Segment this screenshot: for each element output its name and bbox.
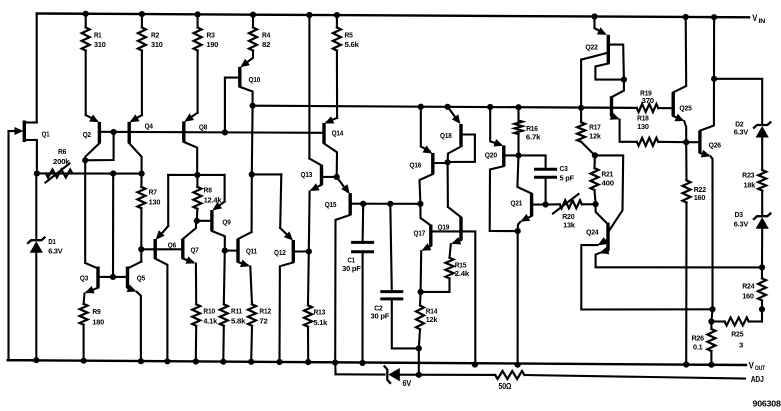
- svg-text:18k: 18k: [744, 180, 757, 189]
- wire ADJ line middle segment: [400, 374, 496, 376]
- svg-text:Q19: Q19: [438, 223, 450, 232]
- svg-text:V: V: [749, 360, 754, 370]
- wire C3 bottom lead: [545, 177, 547, 204]
- label R25 3: [731, 330, 743, 350]
- svg-text:Q7: Q7: [191, 246, 199, 255]
- wire Q15 base row: [350, 203, 420, 205]
- resistor R16: [515, 107, 523, 155]
- label Q17: [414, 229, 426, 238]
- svg-text:200k: 200k: [53, 157, 70, 166]
- junction R6 row to Q3/Q5 base column: [110, 170, 116, 176]
- svg-text:160: 160: [742, 291, 754, 300]
- junction Q2 collector node: [82, 157, 88, 163]
- transistor Q4 (PNP): [129, 114, 142, 173]
- junction R14/C2 node: [416, 345, 422, 351]
- label Q25: [679, 104, 691, 113]
- label R9 180: [92, 307, 104, 327]
- label R13 5.1k: [314, 308, 329, 328]
- svg-text:Q15: Q15: [325, 200, 337, 209]
- svg-text:Q26: Q26: [709, 141, 721, 150]
- resistor R21: [591, 155, 599, 204]
- junction Q12 base / Q13 emitter node: [306, 248, 312, 254]
- svg-text:Q2: Q2: [83, 130, 91, 139]
- svg-text:5.6k: 5.6k: [345, 40, 360, 49]
- svg-text:R4: R4: [262, 31, 271, 40]
- svg-text:R3: R3: [207, 31, 215, 40]
- wire R1 to Q2 emitter: [85, 51, 87, 116]
- wire Q22 collector to Q23 collector: [612, 80, 624, 97]
- svg-text:190: 190: [207, 40, 219, 49]
- resistor R13: [304, 305, 312, 361]
- transistor Q17 (NPN): [420, 204, 431, 292]
- wire VIN top rail: [37, 14, 749, 18]
- svg-text:Q22: Q22: [585, 43, 597, 52]
- wire R6 row: [37, 172, 142, 174]
- resistor R4: [249, 15, 257, 51]
- label R1 310: [94, 31, 106, 50]
- svg-text:160: 160: [694, 193, 706, 202]
- junction Q6 base tap: [138, 246, 144, 252]
- svg-text:400: 400: [602, 179, 614, 188]
- label Q10: [249, 75, 261, 84]
- diode zener D1 6.3V: [27, 237, 45, 253]
- label R12 72: [259, 307, 271, 326]
- svg-text:Q13: Q13: [301, 170, 313, 179]
- label Q26: [709, 141, 721, 150]
- resistor R5: [333, 15, 341, 50]
- junction R16 bottom / Q20 base / Q21 collector: [515, 152, 521, 158]
- resistor R18: [637, 138, 686, 146]
- junction Q4 collector / R7 node: [139, 171, 145, 177]
- junction Q20 emitter on second rail: [487, 104, 493, 110]
- label Q8: [199, 123, 207, 132]
- svg-text:Q9: Q9: [222, 218, 230, 227]
- label R20 13k: [562, 212, 575, 230]
- junction Q5 emitter to VOUT rail: [138, 358, 144, 364]
- label R24 160: [742, 282, 755, 301]
- transistor Q10 (PNP): [225, 51, 253, 133]
- wire tee right arm down to Q9 emitter: [224, 175, 226, 202]
- transistor Q24 (NPN, dual emitter): [581, 204, 762, 309]
- transistor Q14 (PNP): [324, 116, 337, 177]
- svg-text:3: 3: [739, 341, 743, 350]
- junction R16 top on second rail: [515, 104, 521, 110]
- svg-text:OUT: OUT: [755, 365, 766, 372]
- svg-text:IN: IN: [758, 18, 766, 25]
- junction R3 top on VIN rail: [195, 11, 201, 17]
- junction R2 top on VIN rail: [139, 11, 145, 17]
- resistor R6 (variable, 200k): [46, 164, 73, 183]
- svg-text:R12: R12: [259, 307, 271, 316]
- svg-text:Q4: Q4: [145, 122, 154, 131]
- junction tee2 on Q10 column: [249, 171, 255, 177]
- svg-text:82: 82: [262, 40, 270, 49]
- resistor R2: [138, 14, 146, 50]
- svg-text:R17: R17: [589, 123, 601, 132]
- svg-text:5.8k: 5.8k: [231, 317, 246, 326]
- transistor Q5 (NPN): [113, 262, 141, 361]
- transistor Q8 (PNP): [184, 113, 198, 175]
- resistor R11: [220, 304, 228, 361]
- transistor Q6 (PNP): [155, 226, 168, 361]
- junction Q2 link on base bus: [111, 129, 117, 135]
- label D3 6.3V: [734, 210, 748, 229]
- label R18 130: [637, 114, 649, 132]
- svg-text:Q18: Q18: [440, 131, 452, 140]
- wire tee node Q10/Q12: [252, 173, 281, 175]
- wire Q24 base branch: [595, 155, 623, 231]
- label R4 82: [262, 31, 271, 50]
- junction R11 to VOUT rail: [220, 359, 226, 365]
- transistor Q12 (PNP): [280, 228, 309, 362]
- wire R3 to Q8 emitter: [197, 51, 199, 113]
- diode zener D3 6.3V: [753, 213, 771, 229]
- label Q21: [511, 199, 523, 208]
- resistor R25: [711, 318, 762, 326]
- svg-text:Q3: Q3: [80, 273, 88, 282]
- transistor Q13 (NPN): [309, 159, 337, 252]
- svg-text:R26: R26: [692, 334, 704, 343]
- junction R21 bottom / R20 / Q24 collector: [593, 201, 599, 207]
- junction R5 top on VIN rail: [334, 12, 340, 18]
- transistor Q19 (NPN): [431, 207, 476, 365]
- node ADJ label: [751, 375, 764, 384]
- svg-text:R5: R5: [345, 31, 353, 40]
- capacitor C3 5pF: [534, 169, 557, 177]
- svg-text:Q24: Q24: [586, 228, 599, 237]
- junction upper emitter row / Q26 emitter: [709, 306, 715, 312]
- resistor 50ohm (inline on ADJ line): [495, 371, 524, 379]
- junction C3 bottom / Q21 base node: [543, 201, 549, 207]
- svg-text:310: 310: [151, 40, 163, 49]
- svg-text:12.4k: 12.4k: [204, 196, 223, 205]
- wire Q26 emitter column to R25 node: [711, 309, 712, 321]
- transistor Q11 (NPN): [225, 232, 252, 304]
- svg-text:12k: 12k: [426, 315, 439, 324]
- junction R12 to VOUT rail: [248, 359, 254, 365]
- wire second rail (first stage collector bus): [253, 106, 637, 108]
- resistor R26: [707, 322, 715, 365]
- label Q19: [438, 223, 450, 232]
- svg-text:5 pF: 5 pF: [560, 174, 575, 183]
- junction Q16 emitter on second rail: [418, 104, 424, 110]
- svg-text:50Ω: 50Ω: [499, 382, 512, 391]
- diode zener D2 6.3V: [753, 122, 771, 138]
- wire R22 column: [685, 142, 687, 180]
- wire tee node R3/R8/Q6/Q9: [168, 174, 224, 176]
- wire R23 to D3: [761, 191, 763, 217]
- svg-text:R11: R11: [231, 307, 242, 316]
- junction R24 bottom / upper emitter row: [759, 306, 765, 312]
- junction Q26 collector on VIN rail: [711, 14, 717, 20]
- junction Q22 emitter on VIN rail: [591, 13, 597, 19]
- resistor R24: [758, 267, 766, 309]
- resistor R23: [758, 170, 766, 191]
- label R16 6.7k: [526, 124, 541, 142]
- transistor Q25 (NPN): [673, 17, 686, 142]
- wire R7 top lead: [140, 174, 142, 187]
- wire node X to Q19 collector: [447, 162, 449, 207]
- junction D2 branch: [711, 76, 717, 82]
- svg-text:180: 180: [92, 318, 104, 327]
- label Q18: [440, 131, 452, 140]
- label R5 5.6k: [345, 31, 360, 50]
- svg-text:Q1: Q1: [42, 130, 50, 139]
- resistor R9: [80, 304, 88, 361]
- label Q2: [83, 130, 91, 139]
- label Q14: [332, 129, 344, 138]
- junction Q9 collector / Q11 base node: [222, 248, 228, 254]
- transistor Q22 (PNP): [581, 17, 624, 108]
- capacitor C2 30pF: [380, 292, 403, 299]
- junction C1 to VOUT rail: [359, 360, 365, 366]
- svg-text:30 pF: 30 pF: [342, 264, 361, 273]
- junction Q12 collector to VOUT rail: [276, 359, 282, 365]
- wire C3 link from Q20 base node: [519, 155, 546, 169]
- label Q15: [325, 200, 337, 209]
- svg-text:R13: R13: [314, 308, 326, 317]
- wire Q1 gate to bottom rail: [9, 131, 37, 360]
- label R22 160: [694, 185, 706, 202]
- junction Q16/Q17 collector node: [417, 201, 423, 207]
- junction Q10 base on base bus: [222, 129, 228, 135]
- wire Q3/Q5 base column: [112, 174, 114, 277]
- svg-text:Q20: Q20: [485, 151, 497, 160]
- svg-text:R6: R6: [58, 147, 66, 156]
- svg-text:6.3V: 6.3V: [48, 247, 62, 256]
- label Q3: [80, 273, 88, 282]
- wire Q2 collector down to Q3 collector: [84, 160, 86, 263]
- capacitor C1 30pF: [351, 242, 374, 251]
- svg-text:Q8: Q8: [199, 123, 207, 132]
- junction R22 on VOUT rail: [683, 361, 689, 367]
- svg-text:Q14: Q14: [332, 129, 344, 138]
- resistor R19 (inline on second rail): [637, 104, 672, 112]
- junction R26 on VOUT rail: [708, 362, 714, 368]
- svg-text:D3: D3: [735, 210, 743, 219]
- svg-text:C3: C3: [560, 164, 568, 173]
- diode zener 6V (inline on ADJ line): [384, 366, 400, 384]
- junction R8 bottom / Q9 base / Q7 collector: [194, 218, 200, 224]
- label Q6: [168, 241, 176, 250]
- svg-text:Q6: Q6: [168, 241, 176, 250]
- label R6: [53, 147, 70, 166]
- svg-text:R24: R24: [742, 282, 755, 291]
- transistor Q1 (JFET): [9, 121, 37, 143]
- resistor R20 (variable, 13k): [546, 194, 596, 214]
- resistor R3: [194, 14, 202, 50]
- label Q12: [274, 248, 286, 257]
- part number 906308: [753, 398, 781, 408]
- svg-text:Q21: Q21: [511, 199, 523, 208]
- junction D1 to VOUT rail: [33, 357, 39, 363]
- label D2 6.3V: [734, 120, 748, 137]
- svg-text:4.1k: 4.1k: [203, 317, 218, 326]
- junction tee R8 top: [194, 172, 200, 178]
- label R3 190: [207, 31, 219, 50]
- svg-text:R23: R23: [742, 171, 754, 180]
- wire Q13 emitter column to R13: [307, 252, 310, 306]
- label R11 5.8k: [231, 307, 246, 326]
- wire node to Q26 base: [686, 141, 700, 143]
- label C1 30 pF: [342, 255, 361, 273]
- svg-text:370: 370: [642, 96, 654, 105]
- svg-text:6.7k: 6.7k: [526, 133, 541, 142]
- resistor R17: [577, 108, 595, 156]
- svg-text:R9: R9: [92, 307, 100, 316]
- wire D1 bottom lead: [35, 251, 37, 360]
- label Q22: [585, 43, 597, 52]
- svg-text:Q17: Q17: [414, 229, 426, 238]
- junction Q18 emitter on second rail: [445, 104, 451, 110]
- wire C2 top lead: [390, 204, 392, 292]
- junction Q22 base / R17 on second rail: [578, 105, 584, 111]
- wire Q21 emitter node to VOUT rail: [517, 231, 519, 365]
- svg-text:R10: R10: [203, 307, 215, 316]
- label R19 370: [640, 89, 654, 106]
- svg-text:6.3V: 6.3V: [734, 128, 748, 137]
- svg-text:Q16: Q16: [410, 161, 422, 170]
- resistor R1: [82, 14, 90, 51]
- svg-text:72: 72: [259, 317, 267, 326]
- junction Q15 collector to VOUT rail: [332, 360, 338, 366]
- svg-text:Q25: Q25: [679, 104, 691, 113]
- label Q13: [301, 170, 313, 179]
- transistor Q18 (PNP): [448, 107, 475, 163]
- svg-text:R7: R7: [149, 188, 157, 197]
- label R15 2.4k: [455, 261, 470, 278]
- svg-text:R8: R8: [204, 186, 212, 195]
- label Q9: [222, 218, 230, 227]
- transistor Q20 (PNP): [490, 107, 519, 231]
- svg-text:Q5: Q5: [137, 273, 145, 282]
- wire R7 bottom to Q5 collector: [140, 208, 142, 261]
- junction node X (Q16/Q18 base, Q19 collector): [445, 159, 451, 165]
- resistor R7: [137, 187, 145, 208]
- label Q7: [191, 246, 199, 255]
- wire Q9 collector node to R11: [224, 251, 225, 305]
- label C2 30 pF: [371, 303, 390, 320]
- transistor Q7 (NPN): [183, 221, 196, 304]
- svg-text:2.4k: 2.4k: [455, 269, 470, 278]
- junction Q20 collector / Q21 emitter node: [515, 228, 521, 234]
- svg-text:Q10: Q10: [249, 75, 261, 84]
- junction Q14 collector / Q13 base / Q15 emitter: [334, 174, 340, 180]
- label R10 4.1k: [203, 307, 218, 326]
- wire R5 to Q14 emitter: [336, 51, 338, 118]
- svg-text:R1: R1: [94, 31, 102, 40]
- label Q16: [410, 161, 422, 170]
- wire base bus Q2-Q4-Q8-Q14: [99, 132, 322, 133]
- transistor Q2 (PNP): [85, 115, 99, 161]
- svg-text:V: V: [752, 13, 757, 23]
- wire C1 top lead: [362, 204, 365, 243]
- junction lower emitter row / R24 top / D3: [759, 264, 765, 270]
- svg-text:Q11: Q11: [246, 246, 257, 255]
- svg-text:130: 130: [637, 122, 649, 131]
- wire Q10 collector column down: [251, 106, 254, 175]
- wire R14 column to ADJ line: [418, 348, 420, 374]
- junction Q19 base column to VOUT rail: [472, 362, 478, 368]
- junction R14 column on ADJ line: [416, 372, 422, 378]
- label Q11: [246, 246, 257, 255]
- wire C2 bottom lead to R14 column: [392, 299, 419, 349]
- wire Q10 column down to Q11 collector: [251, 174, 253, 232]
- transistor Q21 (NPN): [517, 155, 545, 231]
- transistor Q26 (NPN): [700, 17, 714, 309]
- label Q20: [485, 151, 497, 160]
- junction Q10 collector / second rail start: [250, 103, 256, 109]
- wire ADJ line left segment: [336, 373, 385, 375]
- transistor Q9 (PNP): [197, 202, 225, 251]
- wire Q13 collector to VIN rail: [308, 15, 310, 159]
- svg-text:130: 130: [149, 198, 161, 207]
- wire D2 branch from Q26 collector column: [714, 79, 762, 124]
- junction R13 to VOUT rail: [305, 359, 311, 365]
- label R8 12.4k: [204, 186, 223, 205]
- svg-text:ADJ: ADJ: [751, 375, 764, 384]
- label D1 6.3V: [48, 237, 62, 256]
- resistor R15: [421, 258, 454, 292]
- wire D2 to R23: [761, 136, 763, 170]
- transistor Q3 (NPN): [84, 263, 113, 304]
- transistor Q23 (NPN, unlabeled): [610, 96, 637, 142]
- junction Q3/Q5 base node: [110, 274, 116, 280]
- label R26 0.1: [692, 334, 704, 352]
- wire Q1 source to R6 node: [36, 140, 38, 173]
- junction R1 top on VIN rail: [83, 11, 89, 17]
- wire C1 bottom lead: [361, 252, 363, 363]
- svg-text:6V: 6V: [403, 379, 412, 388]
- wire Q2 collector to base link: [85, 132, 113, 160]
- label Q5: [137, 273, 145, 282]
- label R7 130: [149, 188, 161, 207]
- svg-text:906308: 906308: [753, 398, 781, 408]
- label R2 310: [151, 31, 163, 50]
- svg-text:310: 310: [94, 40, 106, 49]
- label Q24: [586, 228, 599, 237]
- junction R17 bottom / R21 top / Q24 base branch: [592, 152, 598, 158]
- wire D3 to R24 node: [761, 227, 763, 267]
- wire R24 node to R25: [761, 309, 763, 321]
- junction Q25 emitter / R18 / R22 / Q26 base: [683, 139, 689, 145]
- junction R25 / R26 / Q26 emitter column: [708, 318, 714, 324]
- svg-text:R2: R2: [151, 31, 159, 40]
- svg-text:R25: R25: [731, 330, 743, 339]
- label Q1: [42, 130, 50, 139]
- label 50ohm value: [499, 382, 512, 391]
- label C3 5 pF: [560, 164, 575, 183]
- junction C1 top: [360, 201, 366, 207]
- wire left border from VIN rail to Q1 drain: [36, 14, 38, 123]
- wire ADJ stub from VOUT rail: [334, 363, 336, 375]
- resistor R22: [683, 180, 691, 364]
- resistor R12: [248, 304, 256, 361]
- node VOUT label: [749, 360, 766, 372]
- junction Q13 collector on VIN rail: [306, 12, 312, 18]
- transistor Q16 (PNP): [420, 107, 448, 204]
- junction Q25 collector on VIN rail: [683, 14, 689, 20]
- junction Q22 base/collector tie: [621, 77, 627, 83]
- svg-text:5.1k: 5.1k: [314, 318, 329, 327]
- svg-text:Q12: Q12: [274, 248, 286, 257]
- wire tee2 down to Q12 emitter: [280, 174, 281, 228]
- transistor Q15 (PNP): [335, 177, 350, 363]
- svg-text:6.3V: 6.3V: [734, 220, 748, 229]
- label R21 400: [602, 170, 614, 188]
- svg-text:R21: R21: [602, 170, 614, 179]
- label 6V: [403, 379, 412, 388]
